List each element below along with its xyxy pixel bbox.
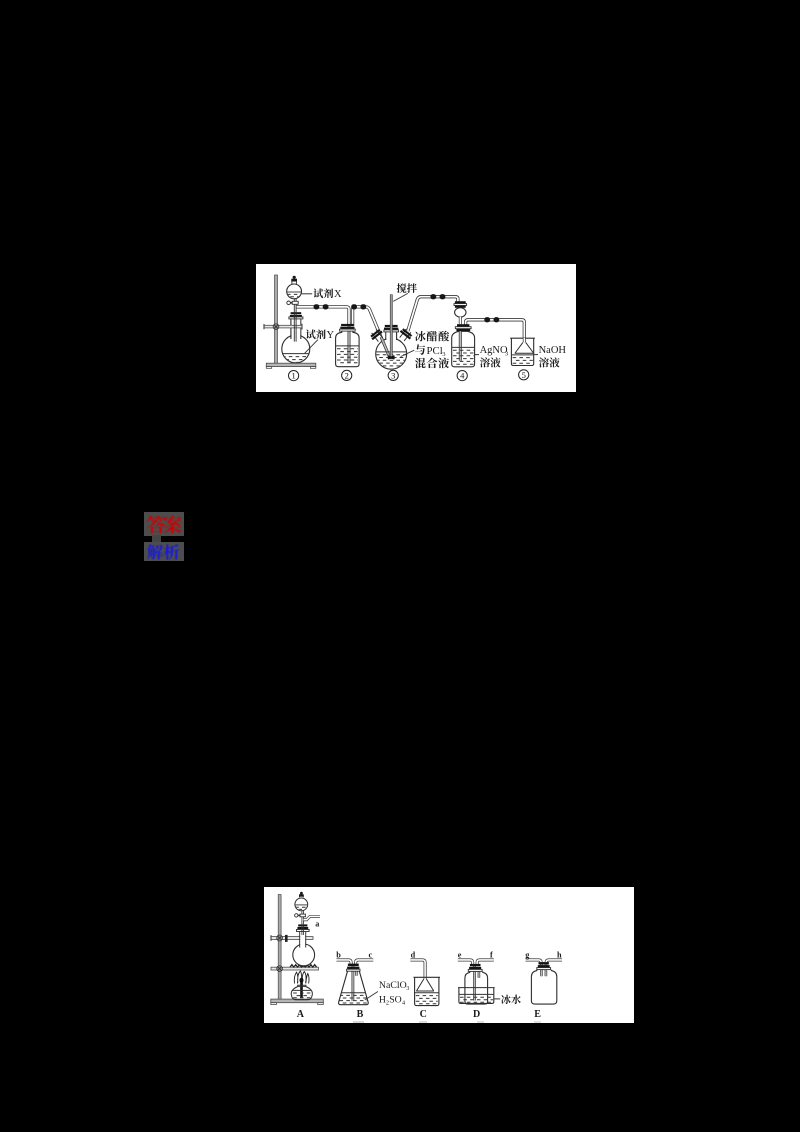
svg-text:NaOH: NaOH [539,345,567,356]
gas bottle 4 body [452,331,475,367]
junction 2-3 [351,304,357,309]
stand base [266,363,316,366]
safety bulb [455,308,466,317]
lamp wick [300,981,303,998]
svg-text:g: g [525,951,530,960]
flask 3 right neck [397,327,414,343]
flask B stopper [348,964,359,966]
svg-text:c: c [369,951,373,960]
tube h [546,960,562,963]
svg-text:b: b [336,951,341,960]
flask A body [293,944,315,966]
bottle D stopper [470,964,481,966]
svg-text:a: a [315,919,319,928]
svg-text:D: D [473,1009,480,1020]
clamp [264,325,302,328]
bottle D outlet stub [478,967,481,978]
beaker 5 liquid NaOH [512,354,534,356]
flask B liquid [342,992,366,994]
svg-text:NaClO: NaClO [379,980,407,991]
stirrer blades [388,356,395,359]
tube bulb to bottle4 [459,317,462,325]
junction 4-5 [484,317,490,322]
svg-text:h: h [557,951,562,960]
svg-text:E: E [534,1009,541,1020]
label mixture [415,331,426,341]
pointer line B [365,992,378,1001]
tube d [410,960,425,979]
flask 1 neck [291,319,301,339]
bottle 2 stopper [341,324,354,326]
inlet tube inside flask 3 [379,331,390,357]
bottle E stubs [540,963,543,977]
wire tube 1-2 [296,307,349,326]
lamp liquid [293,989,311,991]
svg-text:A: A [297,1009,305,1020]
dropping funnel bulb (reagent X) [287,284,302,299]
svg-text:5: 5 [522,370,526,380]
flask B body [339,971,369,1005]
flask B outlet stub [355,967,358,976]
ice-water bath vessel [459,988,494,1004]
stand base A [271,999,324,1003]
flask A neck [300,932,306,948]
label circled 3 [388,370,398,380]
tube f [477,960,494,964]
flask B inlet tube [351,964,354,1001]
funnel A stem [302,911,304,935]
svg-text:3: 3 [442,351,446,358]
junction 3-4 [430,294,436,299]
label stirrer [397,283,407,293]
tube g [526,960,542,963]
wire outlet bottle4 [466,320,525,342]
lamp flame tongues [294,971,309,984]
flask 1 body [282,335,310,363]
funnel A top stopper [299,895,303,898]
flask 3 left neck [369,327,386,343]
dropping funnel stopcock [292,301,298,304]
bottle 4 stopper [457,324,469,326]
svg-text:X: X [334,289,342,300]
flask 1 stopper [291,312,302,314]
tube b [337,960,352,964]
svg-text:3: 3 [406,985,409,992]
bottle 2 inlet tube (inside) [348,326,351,362]
svg-text:f: f [490,951,493,960]
svg-text:B: B [357,1009,364,1020]
iron ring clamp [271,967,319,970]
gas bottle E [531,970,556,1004]
wire gauze hatch [290,965,317,967]
svg-text:1: 1 [291,371,295,381]
label AgNO3 [475,354,479,356]
flask 3 body [376,338,407,369]
svg-text:AgNO: AgNO [480,345,508,356]
funnel in beaker C [417,979,434,991]
dropping funnel top neck [292,280,297,284]
bottle E stopper [539,962,549,964]
wire outlet bottle2 to flask3 [353,307,380,334]
analysis tag blue [144,542,184,561]
svg-text:3: 3 [391,370,395,380]
flask 3 liquid (mixture) [377,351,407,353]
label NaOH [534,354,538,356]
bottle D inlet tube [473,964,476,1000]
svg-text:2: 2 [345,370,349,380]
stand rod A [278,895,281,1001]
dropping funnel stem [294,299,296,342]
bath water [459,993,493,995]
label reagent Y [306,329,316,339]
svg-text:d: d [411,951,416,960]
label circled 4 [457,371,467,381]
gas bottle 2 body [336,331,360,367]
flask 1 liquid (reagent Y) [283,353,309,355]
outlet tube a [304,916,320,919]
flask 3 center neck [386,332,397,340]
svg-text:C: C [420,1009,427,1020]
bottle 4 liquid AgNO3 [452,346,474,348]
safety bulb stopper [455,301,466,303]
svg-text:e: e [458,951,462,960]
label ice water [494,998,500,1000]
stirrer rod [390,295,392,359]
tube e [458,960,473,964]
soot smudge under flask [298,963,308,967]
stand rod [275,275,278,364]
svg-text:Y: Y [327,330,335,341]
wire tube 3-4 [408,297,458,331]
label circled 5 [519,370,529,380]
svg-text:4: 4 [402,1000,405,1007]
label circled 1 [289,371,299,381]
bottle 4 inlet tube inside [459,328,462,361]
funnel A stopcock [300,914,305,917]
beaker C [415,977,439,1005]
flask A stopper [298,924,307,926]
answer tag red [144,512,184,536]
funnel A bulb [295,898,308,911]
svg-text:SO: SO [389,995,402,1006]
clamp A upper [271,937,313,940]
label circled 2 [342,370,352,380]
beaker C liquid [415,992,439,994]
svg-text:PCl: PCl [427,345,443,357]
beaker 5 [511,338,533,365]
lamp body [291,985,312,1000]
apparatus panel bottom [264,887,634,1023]
apparatus panel top [256,264,576,392]
svg-text:4: 4 [460,371,465,381]
bottle 2 liquid [336,345,359,347]
dropping funnel top stopper [291,279,297,282]
cropped text smudges at bottom edge of panel [353,1021,364,1023]
tube c [356,960,374,964]
inverted funnel in beaker [523,338,526,342]
svg-text:3: 3 [505,350,508,357]
label reagent X [302,293,313,295]
tube junction 1 [314,304,320,309]
gas bottle D [465,972,488,1005]
